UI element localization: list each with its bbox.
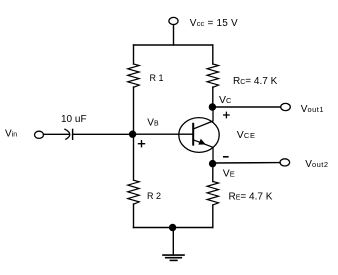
wire Vout2 — [213, 162, 280, 164]
wire Vcc stem — [173, 25, 175, 45]
transistor Q1 circle — [179, 118, 219, 153]
transistor Q1 collector — [193, 107, 213, 129]
svg-text:Vout1: Vout1 — [301, 104, 324, 115]
wire right rail lower — [212, 205, 214, 228]
svg-text:Vcc = 15 V: Vcc = 15 V — [190, 18, 238, 29]
svg-text:10 uF: 10 uF — [61, 114, 87, 125]
transistor Q1 emitter — [193, 140, 213, 164]
wire base — [134, 133, 194, 135]
wire right rail upper — [212, 45, 214, 64]
label RE value — [229, 192, 273, 203]
plus sign at collector — [224, 112, 229, 117]
label R2 — [147, 191, 161, 201]
node ground junction — [169, 224, 176, 231]
wire collector rail — [212, 87, 214, 107]
label VB — [147, 118, 159, 129]
wire left rail upper — [133, 45, 135, 64]
wire left rail middle — [133, 87, 135, 180]
wire Vout1 — [213, 106, 281, 108]
label VC — [219, 94, 232, 106]
svg-text:R 1: R 1 — [150, 73, 164, 83]
Vcc terminal — [169, 17, 178, 24]
node VC — [209, 103, 216, 110]
label Vout1 — [301, 104, 324, 115]
label Vout2 — [305, 159, 328, 170]
label 10uF — [61, 114, 87, 125]
svg-text:R 2: R 2 — [147, 191, 161, 201]
resistor R2 — [128, 180, 139, 204]
ground — [163, 255, 184, 260]
label VE — [223, 167, 236, 179]
transistor Q1 base bar — [192, 124, 194, 145]
plus sign at base — [139, 141, 145, 147]
svg-text:VE: VE — [223, 167, 236, 179]
Vin terminal — [35, 131, 44, 138]
label Vcc = 15 V — [190, 18, 238, 29]
svg-text:VC: VC — [219, 94, 232, 106]
Vout2 terminal — [280, 159, 290, 166]
svg-text:RE= 4.7 K: RE= 4.7 K — [229, 192, 273, 203]
svg-text:RC= 4.7 K: RC= 4.7 K — [233, 76, 278, 87]
wire top rail — [134, 44, 213, 46]
capacitor C1 10uF straight plate — [72, 129, 74, 139]
minus sign at emitter — [224, 156, 228, 158]
resistor RE — [207, 182, 218, 206]
resistor R1 — [128, 64, 139, 87]
wire capacitor to base node — [73, 133, 134, 135]
wire Vin to capacitor — [44, 133, 70, 135]
label R1 — [150, 73, 164, 83]
resistor RC — [207, 64, 218, 87]
label Vin — [5, 129, 17, 140]
transistor Q1 emitter arrow — [198, 139, 206, 145]
capacitor C1 10uF curved plate — [65, 129, 70, 139]
svg-text:VCE: VCE — [237, 129, 256, 141]
wire left rail lower — [133, 204, 135, 228]
wire emitter rail — [212, 164, 214, 182]
node VB — [129, 131, 136, 138]
label VCE — [237, 129, 256, 141]
node VE — [209, 160, 216, 167]
wire ground stem — [172, 228, 174, 256]
label RC value — [233, 76, 278, 87]
Vout1 terminal — [281, 103, 291, 110]
svg-text:Vout2: Vout2 — [305, 159, 328, 170]
wire bottom rail — [134, 227, 213, 229]
